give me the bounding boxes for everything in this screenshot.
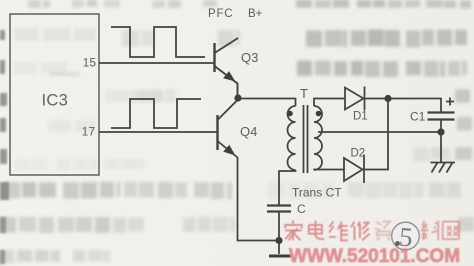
capacitor C plates — [267, 206, 291, 212]
ground chassis right — [431, 163, 456, 173]
transformer T secondary winding — [314, 106, 322, 170]
svg-text:C: C — [297, 202, 306, 216]
phase dot primary — [287, 111, 293, 117]
svg-text:17: 17 — [82, 125, 96, 139]
diode D2 — [344, 155, 364, 184]
node output junction — [384, 95, 391, 102]
svg-text:B+: B+ — [248, 8, 263, 20]
waveform at pin 17 — [111, 99, 201, 128]
node C bottom junction — [275, 237, 282, 244]
capacitor C1 plates — [428, 113, 455, 120]
transistor Q3 — [215, 38, 239, 95]
wire node A to transformer primary top — [241, 99, 296, 107]
darker left-edge bleed blobs (decorative) — [0, 30, 9, 264]
node A junction of Q3 emitter and Q4 collector — [234, 94, 241, 101]
wire output node to C1 top — [391, 99, 441, 113]
svg-text:PFC: PFC — [208, 8, 233, 20]
figure number 5 — [392, 221, 420, 252]
wire secondary bottom to D2 anode — [314, 169, 344, 172]
svg-text:15: 15 — [83, 56, 97, 70]
IC U1 IC3 box — [10, 14, 99, 175]
wire D2 cathode up to output node — [364, 99, 388, 170]
svg-text:C1: C1 — [410, 110, 426, 124]
transformer T primary winding — [288, 106, 296, 170]
wire node to bottom ground — [278, 243, 280, 254]
wire pin17 to Q4 base — [99, 131, 218, 133]
transistor Q4 — [218, 100, 279, 241]
wire D1 cathode to output node — [365, 98, 389, 100]
svg-text:Q3: Q3 — [241, 50, 258, 65]
wire primary bottom to capacitor C — [279, 170, 296, 206]
svg-text:D1: D1 — [353, 111, 368, 123]
svg-text:D2: D2 — [351, 148, 366, 160]
svg-text:WWW.520101.COM: WWW.520101.COM — [289, 246, 460, 266]
diode D1 — [345, 87, 365, 111]
node C1 bottom junction — [437, 128, 444, 135]
wire secondary top to D1 anode — [314, 99, 345, 107]
wire C1 bottom to ground — [440, 120, 442, 163]
waveform at pin 15 — [111, 27, 205, 57]
wire pin15 to Q3 base — [99, 62, 215, 64]
wire center tap to C1 bottom — [318, 131, 441, 133]
wire C bottom to ground node — [278, 212, 280, 241]
ground bottom bar — [269, 255, 291, 258]
svg-text:IC3: IC3 — [42, 92, 69, 110]
transformer T core — [304, 105, 308, 173]
plus polarity mark for C1 — [446, 98, 454, 106]
phase dot secondary — [316, 111, 322, 117]
red watermark (decorative) — [284, 221, 459, 241]
svg-text:Q4: Q4 — [240, 124, 257, 139]
svg-text:T: T — [300, 86, 308, 101]
svg-text:Trans CT: Trans CT — [292, 186, 342, 200]
